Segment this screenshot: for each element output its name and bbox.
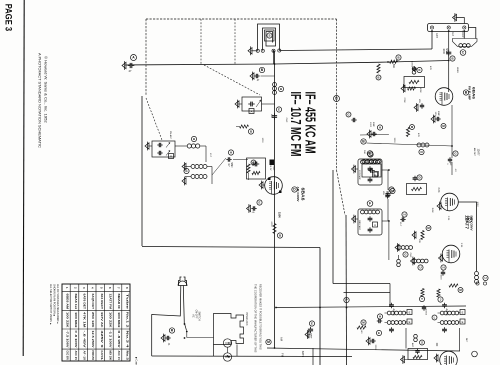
svg-text:D: D xyxy=(293,188,296,192)
svg-text:6X4 RECT: 6X4 RECT xyxy=(100,294,104,310)
svg-text:3: 3 xyxy=(82,287,86,289)
svg-text:B: B xyxy=(465,91,468,95)
svg-text:2.2K: 2.2K xyxy=(437,188,440,193)
svg-text:117V AC: 117V AC xyxy=(100,312,104,329)
svg-text:4.7: 4.7 xyxy=(227,163,229,167)
svg-text:10-7: 10-7 xyxy=(399,222,401,227)
svg-text:B.2V: B.2V xyxy=(269,166,271,171)
svg-text:M: M xyxy=(442,124,445,128)
svg-text:3300: 3300 xyxy=(393,138,395,144)
svg-text:H: H xyxy=(379,315,381,319)
svg-text:1000: 1000 xyxy=(369,122,371,128)
svg-text:K: K xyxy=(418,68,421,72)
svg-text:AM CONV: AM CONV xyxy=(296,187,300,202)
svg-text:56K: 56K xyxy=(392,64,395,69)
svg-text:1MEG: 1MEG xyxy=(456,67,458,73)
svg-text:10.7: 10.7 xyxy=(209,153,211,158)
svg-text:-7.5 100V: -7.5 100V xyxy=(66,331,70,348)
svg-text:E: E xyxy=(409,310,411,314)
svg-text:12.5 250V: 12.5 250V xyxy=(91,331,95,348)
svg-text:MMF: MMF xyxy=(437,111,439,117)
svg-text:B: B xyxy=(261,68,264,72)
svg-text:G: G xyxy=(347,113,349,117)
svg-text:6BA6: 6BA6 xyxy=(472,87,477,100)
svg-text:FM CONV: FM CONV xyxy=(470,216,474,231)
svg-text:6200: 6200 xyxy=(270,222,272,228)
svg-text:1: 1 xyxy=(65,287,69,289)
svg-text:OSC: OSC xyxy=(272,166,274,171)
svg-text:AF -1V: AF -1V xyxy=(83,351,87,361)
svg-text:ALL DC VOLTAGES MEASURED ●: ALL DC VOLTAGES MEASURED ● xyxy=(56,284,59,324)
svg-text:1200: 1200 xyxy=(261,138,263,144)
svg-text:OSC: OSC xyxy=(409,253,411,258)
svg-text:C: C xyxy=(369,153,372,157)
svg-text:47: 47 xyxy=(257,80,260,82)
svg-text:-.6 45V: -.6 45V xyxy=(83,331,87,348)
svg-text:E: E xyxy=(259,201,261,205)
svg-text:150K: 150K xyxy=(431,207,433,213)
svg-text:M: M xyxy=(411,125,414,129)
svg-text:E: E xyxy=(409,320,411,324)
svg-text:SWITCH: SWITCH xyxy=(198,311,200,320)
svg-text:250 12K: 250 12K xyxy=(91,312,95,329)
svg-text:47K: 47K xyxy=(429,66,431,70)
svg-text:1ST FM IF: 1ST FM IF xyxy=(358,170,360,181)
svg-text:12AT7: 12AT7 xyxy=(465,215,470,230)
svg-text:0 .8 100V: 0 .8 100V xyxy=(74,331,78,348)
svg-text:▶ Connection: ▶ Connection xyxy=(135,357,138,365)
svg-text:LOOP: LOOP xyxy=(461,31,464,38)
svg-text:12AT7: 12AT7 xyxy=(477,149,480,157)
svg-text:47K: 47K xyxy=(417,133,419,137)
svg-text:DET: DET xyxy=(465,338,467,343)
svg-text:B: B xyxy=(193,137,195,141)
svg-text:0 .8 95V: 0 .8 95V xyxy=(117,331,121,348)
svg-text:FM IF AMP: FM IF AMP xyxy=(468,86,472,100)
svg-text:ANT: ANT xyxy=(435,33,438,38)
svg-text:J: J xyxy=(440,298,442,302)
svg-text:47K 1M: 47K 1M xyxy=(83,312,87,328)
svg-text:N: N xyxy=(420,150,422,154)
svg-text:FM ANT: FM ANT xyxy=(169,131,172,140)
svg-text:E: E xyxy=(278,108,280,112)
svg-text:R: R xyxy=(171,329,174,333)
svg-text:6BE6 AM: 6BE6 AM xyxy=(66,294,70,310)
svg-text:1000: 1000 xyxy=(440,275,442,281)
svg-text:455: 455 xyxy=(418,99,420,103)
svg-text:G: G xyxy=(454,152,457,156)
svg-text:455: 455 xyxy=(382,191,384,195)
svg-text:4: 4 xyxy=(91,287,95,289)
svg-text:1000: 1000 xyxy=(442,48,445,54)
svg-text:M: M xyxy=(267,340,270,344)
svg-text:OSC: OSC xyxy=(285,118,287,123)
svg-text:B: B xyxy=(377,76,379,80)
svg-text:150V: 150V xyxy=(278,212,282,218)
svg-text:2: 2 xyxy=(74,287,78,289)
svg-text:56K: 56K xyxy=(363,150,365,154)
svg-text:455 KC: 455 KC xyxy=(392,308,394,316)
svg-text:No.5: No.5 xyxy=(125,351,129,361)
svg-text:100 68Ω: 100 68Ω xyxy=(74,312,78,328)
svg-text:2200: 2200 xyxy=(374,345,376,351)
svg-text:B: B xyxy=(280,87,282,91)
svg-text:AVC 2V: AVC 2V xyxy=(74,351,78,361)
svg-text:MIX 100: MIX 100 xyxy=(108,351,112,361)
svg-text:H: H xyxy=(379,126,381,130)
svg-text:E: E xyxy=(462,310,464,314)
svg-text:FM: FM xyxy=(281,353,285,357)
svg-text:22K: 22K xyxy=(418,239,420,243)
svg-text:H: H xyxy=(442,266,444,270)
svg-text:12AT7 FM: 12AT7 FM xyxy=(108,294,112,310)
svg-text:L: L xyxy=(391,188,393,192)
svg-text:6: 6 xyxy=(108,287,112,289)
svg-text:E: E xyxy=(462,320,464,324)
svg-text:ALL SELECTOR SWITCH VIEWS ▲: ALL SELECTOR SWITCH VIEWS ▲ xyxy=(49,284,52,325)
svg-text:100 22K: 100 22K xyxy=(108,312,112,329)
svg-text:-1V: -1V xyxy=(454,168,456,172)
svg-text:-1 2 100V: -1 2 100V xyxy=(108,331,112,348)
svg-text:B: B xyxy=(397,56,399,60)
svg-text:100 22K: 100 22K xyxy=(66,312,70,329)
svg-text:6AQ5 OUT: 6AQ5 OUT xyxy=(91,294,95,310)
svg-text:Tube: Tube xyxy=(125,294,129,310)
svg-text:B: B xyxy=(250,130,252,134)
svg-text:AC: AC xyxy=(192,314,195,318)
svg-text:MMF: MMF xyxy=(445,48,448,54)
svg-text:1: 1 xyxy=(446,163,448,165)
svg-text:ON-OFF: ON-OFF xyxy=(195,310,197,319)
svg-text:455: 455 xyxy=(270,114,272,118)
svg-text:A: A xyxy=(374,223,376,227)
svg-text:M: M xyxy=(427,226,430,230)
svg-text:47: 47 xyxy=(129,69,132,73)
svg-text:B: B xyxy=(279,234,281,238)
svg-text:U: U xyxy=(484,276,486,280)
svg-text:SHOWN IN AM POSITION ■: SHOWN IN AM POSITION ■ xyxy=(53,284,56,316)
svg-text:560: 560 xyxy=(360,330,362,334)
svg-text:G: G xyxy=(404,253,407,257)
svg-text:6AT6 DET: 6AT6 DET xyxy=(83,294,87,310)
svg-text:L: L xyxy=(434,316,436,320)
svg-text:No.3 4: No.3 4 xyxy=(125,331,129,349)
svg-text:RECEIVER MAKES IT POSSIBLE TO: RECEIVER MAKES IT POSSIBLE TO BRING YOU … xyxy=(259,284,263,350)
svg-text:S: S xyxy=(421,341,423,345)
svg-text:MMF: MMF xyxy=(310,334,312,340)
svg-text:B: B xyxy=(335,97,338,101)
svg-text:P: P xyxy=(345,298,348,302)
svg-text:6BA6 1st: 6BA6 1st xyxy=(74,294,78,310)
svg-text:MMF: MMF xyxy=(230,162,232,168)
svg-text:455 KC: 455 KC xyxy=(445,308,447,316)
svg-text:T: T xyxy=(421,297,423,301)
svg-text:AM DET: AM DET xyxy=(473,148,476,157)
svg-text:A.2: A.2 xyxy=(451,32,454,36)
svg-text:AVC: AVC xyxy=(411,343,414,348)
svg-text:8: 8 xyxy=(125,287,129,289)
svg-text:A: A xyxy=(170,154,172,158)
svg-text:AM: AM xyxy=(280,337,284,341)
svg-text:H: H xyxy=(230,151,232,155)
svg-text:2ND FM IF: 2ND FM IF xyxy=(358,220,360,231)
svg-text:100 68Ω: 100 68Ω xyxy=(117,312,121,328)
svg-text:B: B xyxy=(451,57,453,61)
svg-text:7: 7 xyxy=(117,287,121,289)
svg-text:PAGE 3: PAGE 3 xyxy=(3,4,14,31)
svg-text:No.1 2: No.1 2 xyxy=(125,312,129,328)
svg-text:D: D xyxy=(418,176,420,180)
svg-text:AVC 1V: AVC 1V xyxy=(117,351,121,361)
svg-text:INTERLOCK: INTERLOCK xyxy=(245,312,247,326)
svg-text:10000: 10000 xyxy=(425,309,427,316)
svg-text:MF: MF xyxy=(449,162,451,166)
svg-text:S: S xyxy=(268,34,270,38)
svg-text:E: E xyxy=(253,161,255,165)
svg-text:KC: KC xyxy=(385,191,387,194)
svg-text:U: U xyxy=(419,266,421,270)
svg-text:A PHOTOFACT STANDARD NOTATION: A PHOTOFACT STANDARD NOTATION SCHEMATIC xyxy=(38,53,42,148)
svg-text:IF– 10.7 MC FM: IF– 10.7 MC FM xyxy=(287,92,304,157)
svg-text:F: F xyxy=(369,202,371,206)
svg-text:10000: 10000 xyxy=(411,61,413,68)
svg-text:M: M xyxy=(362,321,365,325)
svg-text:.01: .01 xyxy=(167,342,169,346)
svg-text:M: M xyxy=(459,288,462,292)
svg-text:6.3V FIL: 6.3V FIL xyxy=(100,351,104,361)
svg-text:325V 0: 325V 0 xyxy=(100,331,104,349)
svg-text:.05: .05 xyxy=(251,212,255,214)
svg-text:2200: 2200 xyxy=(307,334,309,340)
svg-text:100K: 100K xyxy=(419,87,421,93)
svg-text:270K: 270K xyxy=(403,97,405,103)
svg-text:E: E xyxy=(378,331,380,335)
svg-text:5: 5 xyxy=(99,287,103,289)
svg-text:6BA6 IF: 6BA6 IF xyxy=(117,294,121,310)
svg-text:© Howard W. Sams & Co., Inc. 1: © Howard W. Sams & Co., Inc. 1952 xyxy=(44,56,49,123)
svg-text:3.3K: 3.3K xyxy=(460,243,462,248)
svg-text:6AT6: 6AT6 xyxy=(301,351,305,358)
svg-text:E: E xyxy=(311,322,313,326)
svg-text:6BA6: 6BA6 xyxy=(301,188,306,202)
svg-text:B: B xyxy=(362,140,365,144)
svg-text:MMF: MMF xyxy=(372,122,374,128)
svg-text:H: H xyxy=(403,213,405,217)
svg-text:A: A xyxy=(251,109,253,113)
svg-text:2.2K: 2.2K xyxy=(447,216,449,221)
svg-text:OSC 95V: OSC 95V xyxy=(66,351,70,361)
svg-text:C: C xyxy=(462,51,465,55)
svg-text:THE COOPERATION OF THE MANUFAC: THE COOPERATION OF THE MANUFACTURER OF T… xyxy=(254,284,258,353)
svg-text:PWR 250: PWR 250 xyxy=(91,351,95,361)
svg-text:A: A xyxy=(132,56,135,60)
svg-text:G: G xyxy=(185,169,188,173)
